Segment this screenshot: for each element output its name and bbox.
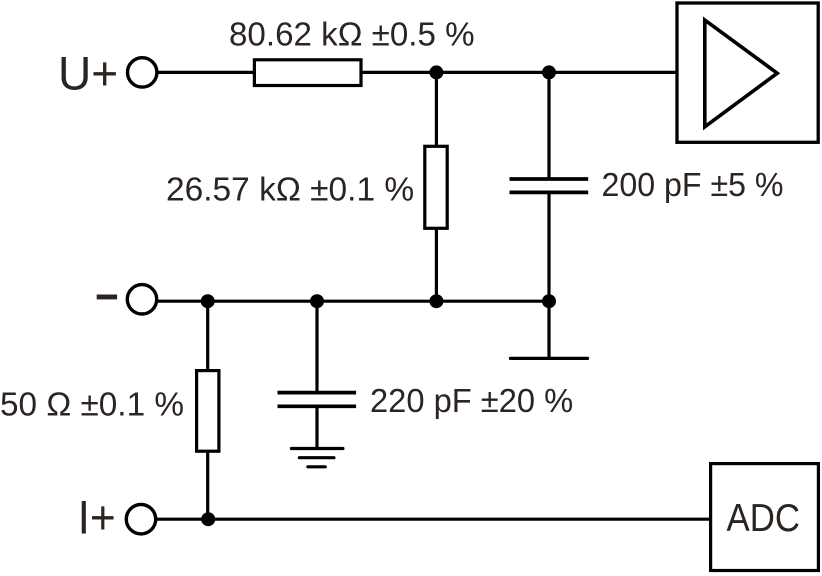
svg-text:I+: I+ (78, 491, 116, 544)
node junction mid-3 (429, 294, 443, 308)
ADC box (711, 464, 819, 571)
capacitor C2 (220 pF) top plate (278, 391, 357, 395)
terminal minus circle (127, 285, 156, 314)
node junction mid-4 (542, 294, 556, 308)
op-amp U1 box (677, 3, 818, 142)
wire R2 to middle rail (435, 228, 438, 302)
wire mid rail to R3 (206, 301, 209, 371)
wire R3 to bottom rail (206, 451, 209, 519)
ground (291, 449, 343, 467)
bottom rail wire (156, 518, 710, 521)
svg-text:ADC: ADC (727, 497, 801, 540)
wire C1 to termination bar (547, 192, 550, 358)
wire C2 to ground (315, 406, 318, 448)
node junction mid-1 (201, 294, 215, 308)
wire U+ to R1 (157, 71, 254, 74)
svg-text:U+: U+ (58, 47, 118, 100)
terminal I+ circle (126, 505, 155, 534)
svg-text:50 Ω ±0.1 %: 50 Ω ±0.1 % (0, 386, 184, 423)
svg-text:200 pF ±5 %: 200 pF ±5 % (602, 166, 784, 203)
node junction top-2 (542, 65, 556, 79)
resistor R1 (80.62 k) (254, 60, 361, 86)
svg-text:80.62 kΩ ±0.5 %: 80.62 kΩ ±0.5 % (229, 15, 475, 52)
wire mid rail to C2 (315, 301, 318, 392)
svg-text:220 pF ±20 %: 220 pF ±20 % (370, 382, 573, 419)
node junction bottom (201, 512, 215, 526)
termination bar (511, 357, 588, 360)
node junction top-1 (429, 65, 443, 79)
resistor R2 (26.57 k) (425, 146, 447, 228)
op-amp U1 triangle (705, 20, 777, 127)
capacitor C1 bottom plate (510, 191, 589, 195)
capacitor C2 bottom plate (278, 404, 357, 408)
svg-text:26.57 kΩ ±0.1 %: 26.57 kΩ ±0.1 % (166, 171, 414, 208)
capacitor C1 (200 pF) top plate (510, 177, 589, 181)
label minus dash (97, 295, 117, 300)
wire junction to C1 (547, 72, 550, 179)
wire junction to R2 (435, 72, 438, 147)
middle rail wire (157, 300, 549, 303)
terminal U+ circle (128, 58, 157, 87)
resistor R3 (50 ohm) (197, 371, 219, 452)
wire R1 to amplifier (361, 71, 677, 74)
node junction mid-2 (310, 294, 324, 308)
